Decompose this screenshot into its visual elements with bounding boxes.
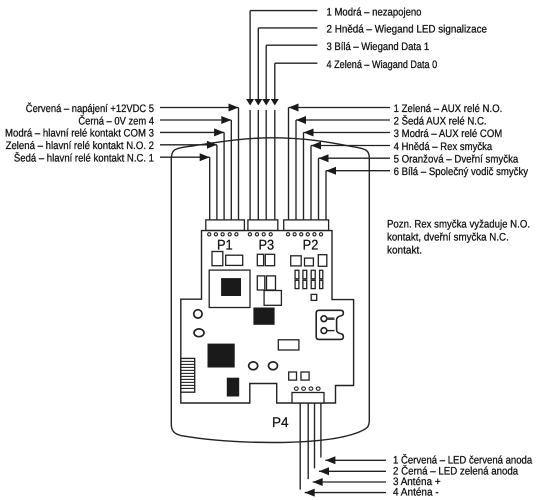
svg-text:4 Anténa -: 4 Anténa - (393, 487, 439, 499)
mounting hole bottom (194, 329, 204, 337)
small square component (311, 294, 317, 300)
jumper pin 1 (321, 316, 327, 322)
svg-text:4 Hnědá – Rex smyčka: 4 Hnědá – Rex smyčka (394, 141, 493, 153)
P2 solder pads (286, 233, 322, 236)
wire P2 pin 5 (oranžová) (318, 158, 320, 220)
wire P3 pin 4 (zelená) (274, 63, 276, 99)
wire P4 pin 4 (anténa -) (299, 403, 301, 490)
top arrowhead 2 (254, 99, 262, 106)
wire P1 pin 1 (šedá) (209, 157, 211, 220)
left label line 2 (160, 144, 217, 146)
wire P2 pin 6 (bílá) (325, 171, 327, 220)
svg-text:2 Hnědá – Wiegand LED signaliz: 2 Hnědá – Wiegand LED signalizace (327, 24, 488, 36)
resistor array row 2 (295, 280, 323, 288)
connector P2 block (284, 220, 329, 231)
svg-text:1 Modrá – nezapojeno: 1 Modrá – nezapojeno (327, 6, 422, 18)
connector P1 block (206, 220, 245, 231)
diode pair square right (301, 372, 309, 380)
wire P2 pin 3 (modrá) (303, 133, 305, 220)
bottom label line 1 (325, 459, 386, 461)
svg-text:Šedá – hlavní relé kontakt N.C: Šedá – hlavní relé kontakt N.C. 1 (14, 152, 154, 165)
svg-text:5 Oranžová – Dveřní smyčka: 5 Oranžová – Dveřní smyčka (394, 154, 519, 166)
svg-text:P2: P2 (303, 237, 319, 253)
wire P3 pin 2 (hnědá) (257, 28, 259, 100)
svg-text:Pozn. Rex smyčka vyžaduje N.O.: Pozn. Rex smyčka vyžaduje N.O. (387, 219, 530, 231)
mounting hole top (194, 310, 202, 318)
wire P1 pin 5 (červená) (238, 108, 240, 220)
top arrowhead 4 (271, 99, 279, 106)
svg-text:2 Šedá AUX relé N.C.: 2 Šedá AUX relé N.C. (394, 114, 487, 127)
wire P1 pin 4 (černá) (230, 120, 232, 220)
svg-text:1 Zelená – AUX relé N.O.: 1 Zelená – AUX relé N.O. (394, 103, 503, 115)
IC U3 black rect (227, 378, 239, 397)
wire P3 pin 1 (modrá) (249, 11, 251, 100)
IC U2 black square (253, 308, 274, 325)
top label line 2 (258, 27, 317, 29)
left label line 4 (160, 119, 231, 121)
P1 solder pads (208, 233, 238, 236)
pad hole left (249, 362, 258, 370)
svg-text:P4: P4 (272, 414, 289, 430)
IC U1 body (221, 278, 241, 296)
left label line 5 (160, 107, 239, 109)
top arrowhead 3 (262, 99, 270, 106)
top label line 4 (275, 62, 318, 64)
component row under P2: small square (305, 258, 314, 266)
right label line 4 (311, 145, 390, 147)
resistor pair under P3 row2 (257, 276, 265, 290)
P4 solder pads (294, 387, 320, 390)
top arrowhead 1 (246, 99, 254, 106)
wire P2 pin 1 (zelená) (288, 108, 290, 220)
edge connector stripes (181, 358, 195, 392)
right label line 2 (296, 119, 390, 121)
svg-text:P1: P1 (217, 237, 233, 253)
svg-text:kontakt.: kontakt. (387, 245, 422, 257)
svg-text:6 Bílá – Společný vodič smyčky: 6 Bílá – Společný vodič smyčky (394, 166, 529, 178)
left label line 3 (160, 131, 224, 133)
wire P4 pin 2 (černá) (314, 403, 316, 468)
resistor array row 1 (295, 270, 323, 279)
connector P4 block (292, 393, 324, 404)
crystal Y1 black square (208, 344, 235, 368)
connector P3 block (248, 220, 278, 231)
right label line 3 (304, 132, 391, 134)
right label line 6 (326, 170, 390, 172)
resistor R white rect (278, 340, 299, 350)
jumper pin 2 (321, 328, 327, 334)
capacitor under P1 left (212, 252, 223, 266)
svg-text:3 Bílá – Wiegand Data 1: 3 Bílá – Wiegand Data 1 (327, 41, 430, 53)
relay K1 white square (264, 291, 281, 306)
P3 solder pads (248, 233, 272, 236)
svg-text:Černá – 0V zem 4: Černá – 0V zem 4 (78, 114, 154, 127)
svg-text:Zelená – hlavní relé kontakt N: Zelená – hlavní relé kontakt N.O. 2 (6, 140, 154, 152)
bottom label line 3 (313, 481, 386, 483)
diode pair square left (289, 372, 297, 380)
right label line 5 (319, 157, 391, 159)
svg-text:Červená – napájení +12VDC 5: Červená – napájení +12VDC 5 (26, 102, 154, 115)
capacitor under P1 right (226, 255, 243, 265)
IC U1 outline (209, 270, 250, 307)
resistor pair under P3 row1 (257, 254, 263, 265)
bottom label line 4 (305, 492, 386, 494)
pad hole right (269, 362, 278, 370)
wire P4 pin 1 (červená) (320, 403, 322, 458)
svg-text:4 Zelená – Wiagand Data 0: 4 Zelená – Wiagand Data 0 (327, 59, 438, 71)
bottom label line 2 (319, 470, 386, 472)
component row under P2: square (291, 256, 302, 266)
top label line 1 (250, 10, 317, 12)
housing dome outline (171, 138, 369, 443)
right label line 1 (289, 107, 391, 109)
jumper header J1 outline (316, 310, 343, 339)
wire P2 pin 2 (šedá) (295, 120, 297, 220)
wire P4 pin 3 (anténa +) (307, 403, 309, 479)
wire P1 pin 3 (modrá) (223, 132, 225, 220)
svg-text:Modrá – hlavní relé kontakt CO: Modrá – hlavní relé kontakt COM 3 (5, 128, 154, 140)
wire P3 pin 3 (bílá) (265, 45, 267, 99)
top label line 3 (266, 44, 317, 46)
svg-text:3 Modrá – AUX relé COM: 3 Modrá – AUX relé COM (394, 128, 503, 140)
left label line 1 (160, 156, 210, 158)
svg-text:P3: P3 (258, 237, 274, 253)
PCB outline (181, 231, 354, 403)
svg-text:kontakt, dveřní smyčka N.C.: kontakt, dveřní smyčka N.C. (387, 232, 509, 244)
wire P1 pin 2 (zelená) (216, 145, 218, 220)
wire P2 pin 4 (hnědá) (310, 146, 312, 220)
component row under P2: tall rect (318, 255, 327, 267)
